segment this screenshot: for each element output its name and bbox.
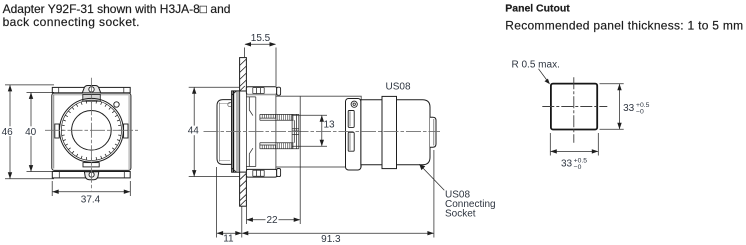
dimension 91.3 extension line [433, 150, 435, 238]
dimension 13 extension lines [292, 115, 327, 146]
dial index hole [114, 102, 119, 107]
front vertical centerline [90, 78, 92, 191]
svg-text:Panel Cutout: Panel Cutout [505, 3, 570, 15]
dimension 44 extension lines [189, 87, 240, 176]
clamp bracket top chamfer [232, 91, 237, 172]
svg-text:US08: US08 [386, 82, 411, 93]
bezel cap [217, 100, 232, 165]
dimension 37.4 extension lines [52, 181, 130, 196]
bottom screw hole [89, 172, 94, 177]
socket top prong [260, 114, 299, 120]
socket ring band [382, 96, 397, 168]
svg-text:33: 33 [561, 159, 573, 170]
panel lower section [240, 172, 247, 206]
dial outer circle [60, 98, 124, 162]
bottom clamp bar cells [253, 170, 264, 176]
bezel inner line [219, 103, 221, 162]
bottom bar end tab [277, 169, 281, 177]
svg-text:−0: −0 [574, 164, 582, 171]
panel upper section [240, 58, 247, 91]
svg-text:−0: −0 [636, 109, 644, 116]
bottom screw lug [84, 172, 98, 180]
top screw lug [82, 86, 100, 93]
svg-text:44: 44 [188, 126, 200, 137]
top bar end tab [277, 87, 281, 95]
svg-text:13: 13 [324, 120, 336, 131]
dimension 44 label [187, 126, 200, 136]
dial tick ring [61, 100, 121, 160]
clamp bracket shading [236, 92, 239, 172]
dimension 22 label [266, 214, 279, 225]
cutout horizontal centerline [542, 106, 607, 108]
side view centerline [204, 131, 441, 133]
left side tab [55, 124, 59, 138]
dimension 11 line [217, 232, 241, 234]
top clamp bar cells [253, 88, 264, 94]
top mounting bar [52, 87, 130, 92]
svg-text:back connecting socket.: back connecting socket. [3, 15, 140, 29]
svg-text:91.3: 91.3 [321, 234, 341, 245]
dimension 13 line [321, 116, 323, 146]
adapter cup sides [246, 93, 276, 170]
bottom bar end cells [59, 172, 124, 178]
front body top shadow [53, 94, 130, 96]
adapter cup shadow [247, 94, 276, 95]
svg-text:Socket: Socket [445, 208, 476, 219]
bezel notch [228, 103, 232, 107]
dimension 22 extension lines [246, 97, 300, 225]
dimension 33 bottom extension lines [550, 133, 598, 156]
right side tab [124, 124, 128, 138]
knob pointer tab [83, 95, 101, 102]
dial ticks [61, 100, 121, 160]
svg-text:33: 33 [623, 103, 635, 114]
connector nub [430, 117, 436, 147]
clamp bracket inner edge [232, 91, 234, 172]
front body inner left line [53, 95, 55, 169]
flange slot upper [348, 111, 354, 128]
dimension 46 extension lines [5, 85, 54, 179]
bottom mounting bar [52, 172, 130, 178]
dimension 44 line [193, 88, 195, 177]
svg-text:15.5: 15.5 [251, 33, 271, 44]
dimension 46 label [1, 126, 13, 136]
flange screw head [351, 101, 357, 107]
svg-text:Recommended panel thickness: 1: Recommended panel thickness: 1 to 5 mm [505, 19, 743, 33]
leader to corner radius [539, 69, 549, 83]
bottom clamp screw bar [246, 169, 276, 177]
dimension 33 right line [619, 84, 621, 129]
dimension 22 line [247, 219, 300, 221]
dimension 40 extension lines [27, 92, 55, 171]
cutout square [551, 84, 597, 130]
front body outline [52, 93, 131, 170]
svg-text:46: 46 [2, 127, 14, 138]
svg-text:22: 22 [266, 215, 278, 226]
knob circle [72, 111, 112, 151]
socket rear face block [292, 114, 299, 148]
dimension 91.3 line [242, 232, 433, 234]
adapter step chamfers [249, 97, 253, 167]
svg-text:R 0.5 max.: R 0.5 max. [512, 60, 560, 71]
dimension 40 line [30, 93, 32, 171]
leader to US08 socket [419, 164, 444, 190]
top screw hole [89, 87, 94, 92]
svg-text:40: 40 [25, 127, 37, 138]
svg-text:11: 11 [223, 234, 234, 245]
svg-text:37.4: 37.4 [81, 195, 101, 206]
top bar end cells [59, 87, 124, 92]
dimension 15.5 line [245, 43, 276, 45]
relay flange plate [346, 99, 361, 171]
flange slot lower [348, 132, 354, 151]
clamp bracket [232, 91, 240, 172]
relay cylinder body [361, 100, 430, 165]
socket bottom prong [260, 143, 299, 149]
top clamp screw bar [246, 87, 276, 95]
bottom center tab [83, 163, 99, 167]
adapter rear face line [255, 97, 257, 167]
dimension 46 line [9, 85, 11, 178]
dimension 15.5 extension lines [245, 48, 277, 87]
relay front housing [276, 96, 361, 167]
dimension 37.4 line [53, 191, 130, 193]
front horizontal centerline [45, 129, 138, 131]
dimension 33 right extension lines [600, 84, 624, 130]
knob pointer shadow [83, 93, 101, 95]
front body right shadow [128, 94, 130, 169]
cutout vertical centerline [573, 77, 575, 143]
dimension 11 extension line [217, 167, 242, 238]
dimension 33 bottom line [551, 150, 598, 152]
dimension 40 label [25, 126, 37, 136]
